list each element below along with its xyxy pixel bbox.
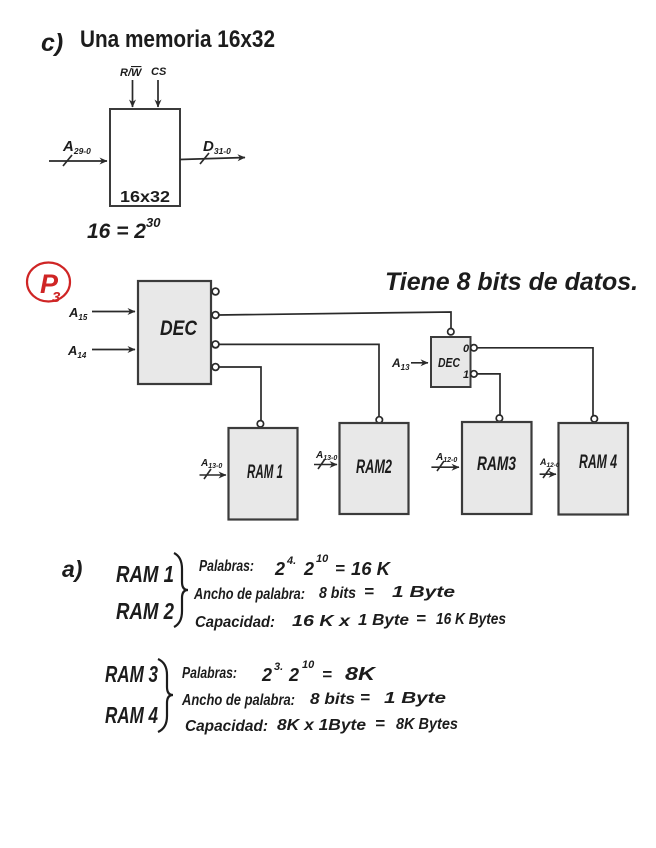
pin: U2 enable bubble (top): [448, 329, 454, 335]
svg-text:RAM 3: RAM 3: [105, 661, 158, 687]
svg-text:1 Byte: 1 Byte: [392, 584, 455, 601]
brace group a: [174, 553, 188, 627]
wire: U2 out0 to RAM4 select: [477, 348, 593, 416]
svg-text:8K: 8K: [345, 664, 378, 684]
svg-text:16 = 230: 16 = 230: [87, 215, 161, 243]
wire: U2 out1 to RAM3 select: [477, 374, 500, 415]
svg-text:2: 2: [274, 559, 285, 579]
memory block 16x32: [110, 109, 180, 206]
svg-text:RAM 4: RAM 4: [105, 702, 158, 728]
svg-text:=: =: [322, 665, 332, 684]
svg-text:D31-0: D31-0: [203, 138, 231, 156]
svg-text:3: 3: [52, 289, 61, 306]
pin: U1 output 2 bubble: [212, 341, 219, 348]
RAM 2 block: [340, 417, 409, 514]
svg-text:Palabras:: Palabras:: [199, 558, 254, 575]
svg-text:A13-0: A13-0: [315, 450, 337, 462]
wire: U1 out2 to RAM2 select: [219, 344, 379, 416]
RAM 1 block: [229, 421, 298, 520]
text: Ancho de palabra: 8 bits = 1 Byte: [193, 582, 455, 603]
svg-text:8 bits: 8 bits: [319, 585, 356, 602]
svg-text:RAM 1: RAM 1: [116, 561, 174, 587]
svg-text:A29-0: A29-0: [62, 138, 91, 156]
svg-text:a): a): [62, 556, 82, 582]
marker P3 (red circled): [27, 263, 70, 307]
wire: U1 out1 to U2 enable: [219, 312, 451, 329]
wire: address bus arrow into RAM2: [314, 459, 337, 469]
svg-text:4.: 4.: [286, 555, 296, 567]
svg-text:A13: A13: [391, 356, 410, 372]
svg-text:Capacidad:: Capacidad:: [185, 718, 268, 735]
wire: A14 arrow into DEC: [92, 349, 135, 351]
svg-text:8K x 1Byte: 8K x 1Byte: [277, 717, 366, 734]
wire: R/W control arrow into memory: [132, 80, 134, 107]
svg-text:=: =: [375, 714, 385, 733]
svg-text:2: 2: [288, 665, 299, 685]
svg-text:16x32: 16x32: [120, 189, 170, 206]
svg-text:DEC: DEC: [438, 355, 460, 370]
svg-text:Ancho de palabra:: Ancho de palabra:: [181, 692, 295, 709]
svg-text:A13-0: A13-0: [200, 458, 222, 470]
svg-text:1 Byte: 1 Byte: [384, 690, 446, 707]
text: Ancho de palabra: 8 bits = 1 Byte (group b): [181, 688, 446, 709]
svg-text:16 K: 16 K: [351, 559, 392, 579]
svg-text:CS: CS: [151, 66, 167, 78]
wire: address bus arrow into RAM4: [540, 468, 556, 478]
svg-text:RAM 2: RAM 2: [116, 598, 174, 624]
svg-text:R/W: R/W: [120, 67, 143, 79]
title text: c) Una memoria 16x32: [41, 26, 275, 57]
svg-text:RAM 1: RAM 1: [247, 462, 283, 483]
wire: A13 arrow into U2: [411, 362, 428, 364]
wire: address bus arrow into RAM3: [431, 461, 459, 471]
svg-text:RAM3: RAM3: [477, 454, 516, 475]
svg-text:10: 10: [316, 553, 329, 565]
svg-text:c): c): [41, 29, 63, 57]
svg-text:A15: A15: [68, 305, 88, 322]
svg-text:8 bits: 8 bits: [310, 691, 355, 708]
pin: U2 output 1 bubble: [471, 371, 477, 377]
wire: data bus arrow out of memory right: [180, 153, 245, 164]
svg-text:1: 1: [463, 369, 469, 381]
svg-text:16 K Bytes: 16 K Bytes: [436, 611, 506, 628]
svg-text:2: 2: [261, 665, 272, 685]
svg-text:DEC: DEC: [160, 317, 198, 340]
pin: U1 output 1 bubble: [212, 312, 219, 319]
svg-text:Palabras:: Palabras:: [182, 665, 237, 682]
text: Palabras: 2^4 . 2^10 = 16 K: [199, 553, 392, 579]
svg-text:Ancho de palabra:: Ancho de palabra:: [193, 586, 305, 603]
decoder U1 (big DEC): [138, 281, 211, 384]
pin: U1 output 0 bubble (unused): [212, 288, 219, 295]
decoder U2 (small DEC): [431, 337, 471, 387]
svg-text:8K Bytes: 8K Bytes: [396, 716, 458, 733]
pin: U1 output 3 bubble: [212, 364, 219, 371]
svg-text:16 K x: 16 K x: [292, 613, 351, 630]
svg-text:0: 0: [463, 343, 470, 355]
svg-text:RAM 4: RAM 4: [579, 452, 617, 473]
svg-text:3.: 3.: [274, 661, 283, 673]
svg-text:2: 2: [303, 559, 314, 579]
brace group b: [158, 659, 173, 732]
svg-text:10: 10: [302, 659, 315, 671]
svg-text:A14: A14: [67, 343, 87, 360]
text: Capacidad: 16 K x 1 Byte = 16 K Bytes: [195, 609, 506, 631]
svg-text:=: =: [335, 559, 345, 578]
text: Palabras: 2^3 . 2^10 = 8K: [182, 659, 378, 685]
wire: A15 arrow into DEC: [92, 311, 135, 313]
text: Capacidad: 8K x 1Byte = 8K Bytes: [185, 714, 458, 735]
svg-text:Tiene 8 bits de datos.: Tiene 8 bits de datos.: [385, 268, 638, 296]
svg-text:=: =: [360, 688, 370, 707]
svg-text:=: =: [364, 582, 374, 601]
svg-text:Una memoria 16x32: Una memoria 16x32: [80, 26, 275, 53]
svg-text:RAM2: RAM2: [356, 457, 392, 478]
svg-text:1 Byte: 1 Byte: [358, 612, 409, 629]
svg-text:A12-0: A12-0: [539, 457, 560, 469]
wire: U1 out3 to RAM1 select: [219, 367, 261, 421]
RAM 3 block: [462, 415, 532, 514]
svg-text:=: =: [416, 609, 426, 628]
RAM 4 block: [559, 416, 629, 515]
wire: address bus arrow into RAM1: [200, 469, 227, 479]
wire: CS control arrow into memory: [157, 80, 159, 107]
pin: U2 output 0 bubble: [471, 345, 477, 351]
svg-text:A12-0: A12-0: [435, 452, 457, 464]
wire: address bus arrow into memory left: [49, 155, 107, 166]
svg-text:Capacidad:: Capacidad:: [195, 614, 275, 631]
